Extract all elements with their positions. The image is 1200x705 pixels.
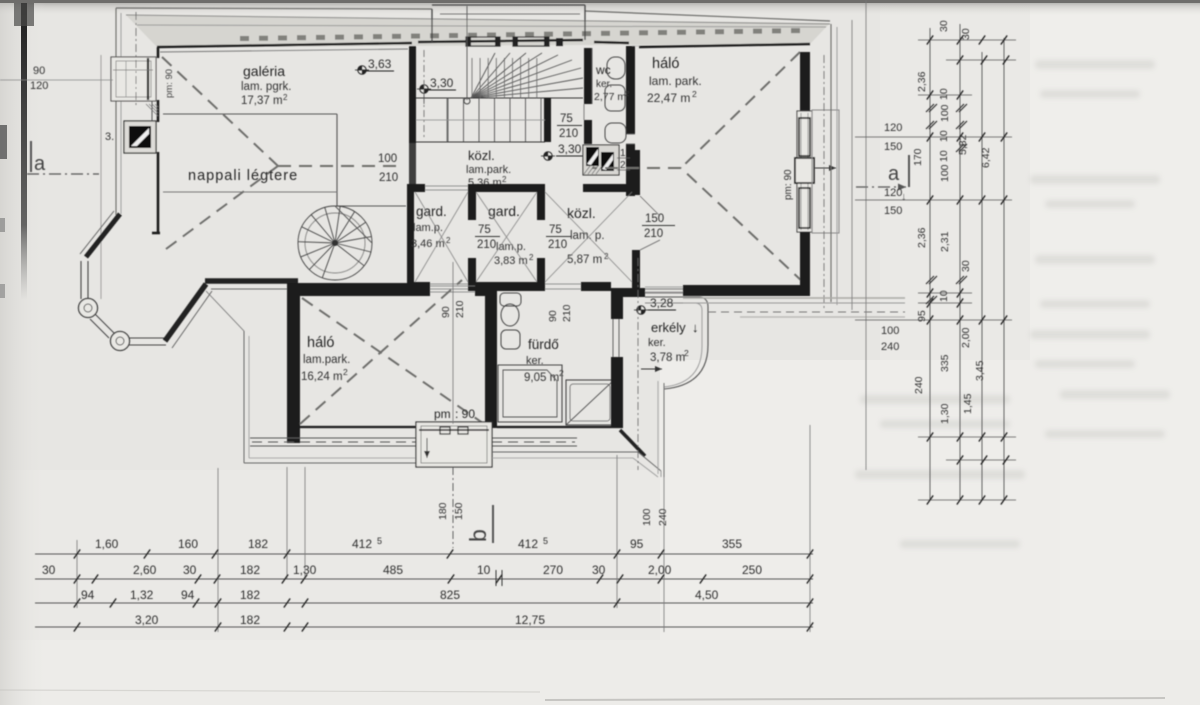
svg-text:240: 240 [881,341,899,353]
furdo sink [501,330,520,349]
hatch on west wall [146,104,158,116]
svg-text:412: 412 [518,537,538,551]
svg-text:182: 182 [240,563,260,577]
svg-text:3.: 3. [105,131,114,143]
level marker 3,30 kozl [541,142,584,160]
bay railing verticals [80,261,82,299]
gard2-kozl wall [537,184,545,220]
svg-text:100: 100 [939,164,951,182]
bottom dim vertical extensions [217,468,219,632]
svg-text:210: 210 [548,239,567,251]
east window sill block [812,110,839,233]
galeria slab edge [163,113,337,115]
halo east bottom wall [683,285,810,296]
SE chamfer wall [611,426,623,428]
extension lines to east dims [683,297,905,299]
svg-text:pm: pm [434,407,451,421]
svg-text:2,77 m: 2,77 m [594,91,626,103]
svg-text:120: 120 [30,80,48,92]
stair bottom landing line [416,141,545,143]
stair mid landing line [416,97,583,99]
erkely axis dash-dot [637,258,639,470]
svg-text:95: 95 [916,310,928,322]
svg-text:2: 2 [684,348,689,358]
svg-text:5,82: 5,82 [957,134,969,155]
bay column 1 [79,299,98,318]
svg-text:150: 150 [645,213,664,225]
halo east room left wall [632,150,640,195]
svg-text:210: 210 [559,128,578,140]
svg-text:12,75: 12,75 [515,613,545,627]
svg-text:90: 90 [440,306,452,318]
gard row bottom wall [407,282,430,291]
stair block upper protrusion [431,9,433,42]
stair right wall [584,48,592,104]
svg-text:355: 355 [722,537,742,551]
svg-text:17,37 m: 17,37 m [241,95,283,107]
svg-text:közl.: közl. [567,205,596,221]
svg-text:95: 95 [630,537,644,551]
svg-text:75: 75 [560,113,573,125]
bottom dim ticks row4 [74,623,80,632]
svg-text:b: b [465,529,491,542]
svg-text:5: 5 [377,536,382,546]
svg-text:75: 75 [478,224,491,236]
south bay window pm:90 [416,422,492,467]
stair arrow line [466,6,468,100]
level marker 3,63 [355,57,394,74]
svg-text:háló: háló [307,335,334,351]
void dashed diagonals halo south [300,280,462,424]
svg-text:182: 182 [240,613,260,627]
svg-text:485: 485 [383,563,403,577]
svg-text:2: 2 [502,175,507,184]
svg-text:30: 30 [960,28,972,40]
svg-text:30: 30 [960,260,972,272]
svg-text:240: 240 [657,508,669,526]
south bay arrow [426,438,428,458]
stair axis dash-dot [423,50,425,140]
wc room walls [591,48,593,104]
bay column 2 [111,332,130,351]
svg-text:30: 30 [592,563,606,577]
door label 150/210 [642,213,675,240]
svg-text:150: 150 [884,205,902,217]
svg-text:2,00: 2,00 [960,327,972,348]
svg-text:2: 2 [529,253,534,262]
window dashes in north wall [240,36,249,41]
svg-text:210: 210 [477,239,496,251]
svg-text:90: 90 [33,65,45,77]
bay railing horizontal [129,337,166,339]
stair tread bars top [466,37,500,46]
svg-text:94: 94 [81,588,95,602]
svg-text:lam. park.: lam. park. [649,74,702,88]
bottom dim ticks row3 [74,599,80,608]
svg-text:182: 182 [240,588,260,602]
svg-text:erkély: erkély [651,320,686,335]
furdo bathtub [498,365,562,422]
svg-text:100: 100 [881,325,899,337]
svg-text:1,30: 1,30 [293,563,317,577]
SE outer corner lines [492,451,638,453]
svg-text:közl.: közl. [468,148,495,163]
svg-text:170: 170 [912,148,924,166]
svg-text:150: 150 [884,141,902,153]
svg-text:412: 412 [352,537,372,551]
svg-text:háló: háló [652,56,679,72]
east exterior face lines [830,24,832,302]
svg-text:pm: 90: pm: 90 [783,169,794,200]
svg-text:2,60: 2,60 [133,563,157,577]
svg-text:lam.park.: lam.park. [303,354,350,366]
svg-text:5,87 m: 5,87 m [567,254,602,266]
furdo east window [612,319,614,357]
east window pm:90 [797,111,812,232]
svg-text:30: 30 [938,20,950,32]
wc sink [605,123,626,143]
fireplace block 3. [124,121,156,153]
south wall of nappali [165,284,206,341]
scan edge dark bar left [21,0,27,300]
svg-text:210: 210 [561,304,573,322]
svg-text:6,42: 6,42 [980,147,992,168]
chimney block top [583,145,619,175]
svg-text:10: 10 [938,150,950,162]
erkely arrow [641,368,662,370]
furdo toilet [500,293,521,306]
svg-text:1: 1 [620,148,626,159]
east window arrow [815,167,836,169]
svg-text:10: 10 [477,563,491,577]
stair winder fan [471,53,583,98]
svg-text:3,78 m: 3,78 m [650,352,685,364]
svg-text:30: 30 [183,563,197,577]
section marker b south [452,262,454,424]
svg-text:3,63: 3,63 [368,57,392,71]
svg-text:30: 30 [42,563,56,577]
svg-text:1,30: 1,30 [939,403,951,424]
furdo bottom wall [497,426,611,428]
void dashed diagonals nappali [162,57,278,166]
east dim horizontal ticked lines [918,39,1016,41]
gard row top wall [407,184,425,192]
halo east right wall upper [800,52,810,111]
scan edge top line [0,0,1200,3]
svg-text:5: 5 [543,536,548,546]
svg-text:100: 100 [939,104,951,122]
svg-text:3,28: 3,28 [650,296,674,310]
outer contour offset SW [243,331,245,463]
svg-text:120: 120 [884,122,902,134]
svg-text:2: 2 [446,236,451,245]
spiral stair [298,206,372,280]
svg-text:150: 150 [453,502,465,520]
svg-text:fürdő: fürdő [528,337,559,352]
svg-text:2: 2 [343,367,348,377]
bottom dim lines [35,553,813,555]
stair flight divider [416,119,545,121]
east wall axis dash-dot [823,55,825,308]
svg-text:210: 210 [454,300,466,318]
svg-text:270: 270 [543,563,563,577]
svg-text:2,36: 2,36 [916,71,928,92]
north wall inner face [157,43,412,47]
svg-text:22,47 m: 22,47 m [647,91,690,105]
svg-text:160: 160 [178,537,198,551]
stair upper treads [472,58,537,98]
svg-text:10: 10 [938,290,950,302]
west exterior wall [100,55,102,299]
svg-text:lam. pgrk.: lam. pgrk. [241,81,292,93]
svg-text:2,31: 2,31 [939,231,951,252]
svg-text:3,30: 3,30 [558,142,582,156]
door label 75/210 stair [557,113,582,140]
svg-text:180: 180 [437,502,449,520]
wc toilet [607,57,625,79]
svg-text:335: 335 [939,354,951,372]
svg-text:100: 100 [378,153,397,165]
level marker 3,28 [634,296,676,314]
svg-text:16,24 m: 16,24 m [301,371,343,383]
bottom dim ticks row2 [74,575,80,584]
erkely threshold lines [645,286,683,288]
halo south bottom wall [300,426,485,428]
bay chamfer wall upper [86,214,120,257]
svg-text:94: 94 [181,588,195,602]
svg-text:1,45: 1,45 [962,393,974,414]
level marker 3,30 stair [417,76,456,93]
svg-text:: 90: : 90 [455,407,475,421]
svg-text:lam.p.: lam.p. [496,241,526,253]
svg-text:gard.: gard. [416,204,447,219]
svg-text:2,36: 2,36 [916,227,928,248]
svg-text:ker.: ker. [648,337,666,349]
svg-text:ker.: ker. [596,79,612,90]
svg-text:2: 2 [625,89,629,98]
east dim vertical lines [851,20,853,310]
halo south room outer walls [287,283,300,443]
halo-furdo wall [485,283,497,428]
stair lower treads [448,98,541,142]
section marker a west [30,141,32,172]
west window pm:90 [111,57,156,101]
furdo right wall [611,296,623,319]
stair landing wall piece [544,98,551,142]
west wall axis dash-dot [135,12,137,105]
svg-text:pm: 90: pm: 90 [164,69,175,98]
svg-text:nappali légtere: nappali légtere [188,168,298,184]
north exterior wall band [126,15,830,47]
svg-text:a: a [34,153,46,175]
svg-text:10: 10 [938,88,950,100]
svg-text:120: 120 [884,187,902,199]
svg-text:2: 2 [620,160,626,171]
svg-text:3,30: 3,30 [430,76,454,90]
svg-text:↓: ↓ [692,320,699,335]
svg-text:250: 250 [742,563,762,577]
svg-text:1,32: 1,32 [130,588,154,602]
svg-text:90: 90 [547,310,559,322]
svg-text:210: 210 [644,228,663,240]
bottom dim ticks row1 [74,550,80,559]
erkely boundary [645,296,700,298]
svg-text:75: 75 [549,224,562,236]
stair left wall [409,46,416,143]
halo east right wall lower [800,232,810,286]
svg-text:210: 210 [379,172,398,184]
bleed-through ghost marks [855,60,1170,548]
svg-text:825: 825 [440,588,460,602]
svg-text:100: 100 [641,508,653,526]
svg-text:3,45: 3,45 [974,360,986,381]
furdo shower [566,380,614,425]
svg-text:2: 2 [692,89,697,99]
svg-text:2: 2 [283,93,288,102]
void dashed diagonals halo east [681,52,800,168]
gard1 left wall [407,184,414,291]
thin X braces gard rooms [415,192,632,282]
svg-text:galéria: galéria [243,63,285,79]
east dim double tick marks [926,104,934,112]
svg-text:2,00: 2,00 [648,563,672,577]
svg-text:10: 10 [938,130,950,142]
svg-text:3,20: 3,20 [135,613,159,627]
svg-text:a: a [888,163,900,185]
svg-text:4,50: 4,50 [695,588,719,602]
gard1-gard2 wall [468,184,476,220]
bay railing diagonal [95,314,114,333]
kozl right wall [632,262,640,291]
svg-text:240: 240 [913,376,925,394]
svg-text:1,60: 1,60 [95,537,119,551]
svg-text:182: 182 [248,537,268,551]
